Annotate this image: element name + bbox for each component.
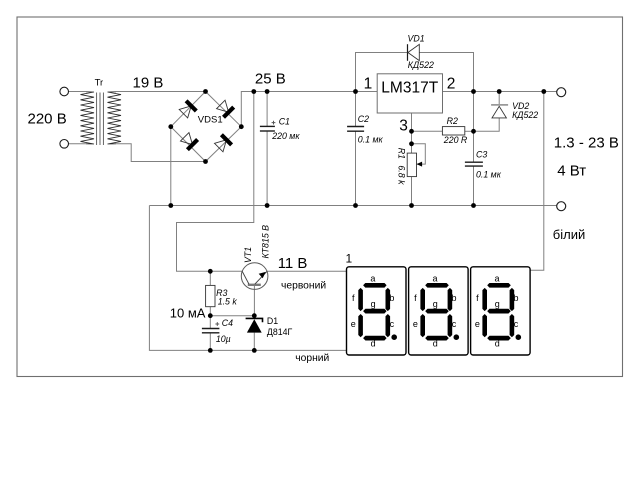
resistor R3 <box>206 285 215 306</box>
wire: VD2 top to positive rail <box>498 92 500 105</box>
svg-text:VT1: VT1 <box>243 247 253 263</box>
junction bridge left <box>168 124 173 129</box>
svg-text:C4: C4 <box>222 318 233 328</box>
wire: R2 right node to VD2 bottom <box>474 118 500 131</box>
svg-text:g: g <box>495 299 500 309</box>
transformer Tr <box>81 92 122 144</box>
junction C1 top <box>265 89 270 94</box>
zener D1 <box>246 318 263 332</box>
base bar <box>248 284 261 286</box>
segment f <box>420 288 425 311</box>
svg-text:10 мА: 10 мА <box>170 306 206 321</box>
svg-text:25 В: 25 В <box>255 70 286 87</box>
wire: pin3 node to R2 <box>412 130 443 132</box>
junction bridge top <box>203 89 208 94</box>
svg-text:3: 3 <box>399 117 408 134</box>
wire: input terminal top to primary <box>69 91 87 93</box>
junction R3 bottom <box>208 313 213 318</box>
junction pin1 <box>353 89 358 94</box>
junction bridge bottom <box>203 159 208 164</box>
diode bottom-left <box>180 132 198 150</box>
svg-text:КТ815 В: КТ815 В <box>260 225 270 259</box>
segment d <box>425 336 449 341</box>
display HG2 <box>409 267 469 355</box>
wire: base node link R3 to D1 <box>210 315 254 317</box>
wire: VD1 bypass left leg <box>356 53 408 92</box>
svg-text:R2: R2 <box>447 116 458 126</box>
decimal point <box>516 334 522 340</box>
junction rail bridge-left <box>168 203 173 208</box>
svg-text:e: e <box>351 319 356 329</box>
capacitor C3 <box>465 162 483 166</box>
svg-text:d: d <box>371 339 376 349</box>
regulator U1 LM317T <box>377 74 442 113</box>
junction D1 bottom <box>252 348 257 353</box>
svg-text:c: c <box>452 319 457 329</box>
svg-text:C3: C3 <box>476 149 487 159</box>
capacitor C2 <box>347 127 364 132</box>
display HG3 <box>471 267 530 355</box>
segment d <box>487 336 511 341</box>
junction pin3 node <box>409 129 414 134</box>
svg-text:VDS1: VDS1 <box>198 114 223 125</box>
svg-text:g: g <box>433 299 438 309</box>
wire: LM317 pin3 down <box>411 113 413 131</box>
diode top-right <box>216 99 234 117</box>
wire: collector feed from positive rail <box>177 92 254 272</box>
junction rail C1 <box>265 203 270 208</box>
wire: secondary top to bridge top vertex <box>116 91 206 93</box>
diode top-left <box>178 101 196 119</box>
segment b <box>448 288 453 311</box>
svg-text:КД522: КД522 <box>512 110 538 120</box>
junction R3 top <box>208 269 213 274</box>
bridge rectifier VDS1 <box>178 99 233 152</box>
wire: secondary bottom to bridge bottom vertex <box>116 144 206 162</box>
svg-text:10µ: 10µ <box>216 334 231 344</box>
wire: R1 top lead <box>411 144 413 153</box>
svg-text:c: c <box>390 319 395 329</box>
secondary winding <box>108 92 122 144</box>
segment f <box>358 288 363 311</box>
label + C4 <box>215 322 219 326</box>
wire: C4 bottom lead <box>209 333 211 351</box>
wire: C3 bottom to negative rail <box>473 166 475 205</box>
svg-text:0.1 мк: 0.1 мк <box>476 170 502 180</box>
wire: C2 branch top <box>355 92 357 127</box>
svg-text:11 В: 11 В <box>278 255 308 272</box>
svg-text:1.3 - 23 В: 1.3 - 23 В <box>554 134 619 151</box>
svg-text:C1: C1 <box>279 116 290 126</box>
svg-text:1.5 k: 1.5 k <box>218 296 238 306</box>
junction R1 wiper node <box>409 141 414 146</box>
svg-text:b: b <box>513 293 518 303</box>
wire: R3 bottom lead <box>209 307 211 316</box>
collector limb <box>242 271 249 284</box>
terminal input bottom <box>60 140 69 149</box>
svg-text:білий: білий <box>553 227 585 242</box>
segment b <box>386 288 391 311</box>
wire: emitter to display 1 <box>267 270 347 272</box>
svg-text:b: b <box>389 293 394 303</box>
wire: D1 top lead <box>253 316 255 319</box>
decimal point <box>454 334 460 340</box>
resistor R2 <box>442 127 464 135</box>
junction bridge right <box>239 124 244 129</box>
capacitor C4 <box>202 329 220 333</box>
svg-text:червоний: червоний <box>281 280 326 291</box>
junction rail R1 <box>409 203 414 208</box>
output terminal minus <box>557 202 566 211</box>
junction D1 top <box>252 313 257 318</box>
terminal input top <box>60 87 69 96</box>
svg-text:d: d <box>433 339 438 349</box>
transformer core <box>97 93 104 146</box>
wire: C1 branch top <box>266 92 268 127</box>
svg-text:Tr: Tr <box>95 78 104 89</box>
wire: bridge left vertex down to negative rail <box>170 127 172 206</box>
junction collector feed tap <box>251 89 256 94</box>
svg-text:R1: R1 <box>396 148 406 159</box>
node dots <box>168 89 546 353</box>
svg-text:b: b <box>451 293 456 303</box>
junction rail C2 <box>353 203 358 208</box>
svg-text:a: a <box>494 274 499 284</box>
wire: LM317 pin2 to output terminal <box>443 91 557 93</box>
wire: VD1 bypass right leg <box>419 53 473 92</box>
segment g <box>425 309 449 314</box>
svg-text:1: 1 <box>364 75 373 92</box>
segment a <box>363 283 387 288</box>
svg-text:2: 2 <box>447 75 456 92</box>
svg-text:c: c <box>514 319 519 329</box>
segment c <box>448 314 453 337</box>
emitter limb with arrow <box>255 271 267 284</box>
segment e <box>420 314 425 337</box>
segment e <box>358 314 363 337</box>
svg-text:LM317T: LM317T <box>381 80 438 97</box>
junction R2 right <box>471 129 476 134</box>
svg-text:g: g <box>371 299 376 309</box>
svg-text:a: a <box>370 274 375 284</box>
border frame <box>17 17 623 377</box>
wire: R3 top lead <box>209 271 211 285</box>
segment c <box>510 314 515 337</box>
wire: input terminal bottom to primary <box>69 143 87 145</box>
junction display feed <box>541 89 546 94</box>
wire: R2 to C3 line <box>465 130 474 132</box>
svg-text:e: e <box>475 319 480 329</box>
svg-text:VD1: VD1 <box>408 34 425 44</box>
svg-text:19 В: 19 В <box>133 75 164 92</box>
svg-text:6.8 k: 6.8 k <box>396 165 406 185</box>
svg-text:КД522: КД522 <box>408 60 434 70</box>
svg-text:C2: C2 <box>358 114 369 124</box>
svg-text:4 Вт: 4 Вт <box>557 163 586 180</box>
segment a <box>487 283 511 288</box>
decimal point <box>391 334 397 340</box>
junction pin2 <box>471 89 476 94</box>
svg-text:220 R: 220 R <box>443 135 468 145</box>
wire: R1 wiper link <box>412 131 426 164</box>
wire: R1 bottom lead to negative rail <box>411 177 413 206</box>
segment g <box>363 309 387 314</box>
R1 wiper arrow <box>417 162 423 167</box>
wire: black rail to display 1 <box>149 206 346 351</box>
diode VD1 <box>408 44 420 61</box>
output terminal plus <box>557 88 566 97</box>
segment f <box>482 288 487 311</box>
junction C4 bottom <box>208 348 213 353</box>
svg-text:e: e <box>413 319 418 329</box>
segment e <box>482 314 487 337</box>
wire: C2 branch bottom <box>355 131 357 205</box>
svg-text:a: a <box>432 274 437 284</box>
wire: C4 top lead <box>209 316 211 329</box>
transistor VT1 <box>241 263 268 290</box>
wire: display anode feed from output rail <box>530 92 544 271</box>
svg-text:220 мк: 220 мк <box>271 131 300 141</box>
display HG1 <box>347 267 407 355</box>
junction rail C3 <box>471 203 476 208</box>
wire: bridge diamond sides <box>171 92 242 162</box>
wire: bridge right vertex up and positive rail to LM317 pin1 <box>241 92 377 127</box>
wire: pin2 node down to R2 right node <box>473 92 475 163</box>
svg-text:Д814Г: Д814Г <box>267 327 293 337</box>
capacitor C1 <box>260 126 275 131</box>
diode VD2 <box>491 105 508 118</box>
junction VD2 top <box>497 89 502 94</box>
segment g <box>487 309 511 314</box>
wire: C1 branch bottom <box>266 131 268 206</box>
segment a <box>425 283 449 288</box>
svg-text:220 В: 220 В <box>28 110 67 127</box>
wire: VT1 base lead <box>253 285 255 316</box>
svg-text:D1: D1 <box>267 316 278 326</box>
segment b <box>510 288 515 311</box>
svg-text:чорний: чорний <box>295 353 329 364</box>
potentiometer R1 <box>407 153 416 177</box>
svg-text:0.1 мк: 0.1 мк <box>358 135 384 145</box>
segment c <box>386 314 391 337</box>
wire: D1 bottom lead <box>253 333 255 351</box>
svg-text:d: d <box>495 339 500 349</box>
primary winding <box>81 92 95 144</box>
segment d <box>363 336 387 341</box>
svg-text:1: 1 <box>346 252 353 266</box>
wire: negative rail <box>149 205 556 207</box>
diode bottom-right <box>214 135 232 153</box>
